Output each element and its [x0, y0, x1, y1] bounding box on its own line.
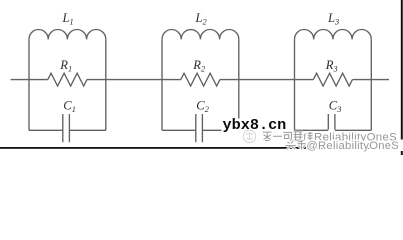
- watermark ybx8.cn white background box: [222, 119, 292, 134]
- wire: bottom left of loop 3: [295, 129, 329, 131]
- wire: right stub of main horizontal line: [352, 79, 389, 81]
- wire: bottom left of loop 2: [162, 129, 196, 131]
- inductor L1: [29, 30, 106, 40]
- capacitor C2: [196, 114, 203, 142]
- svg-text:ybx8.cn: ybx8.cn: [223, 116, 287, 134]
- watermark halo patch over right border: [397, 140, 403, 152]
- resistor R2: [181, 73, 220, 86]
- resistor R1: [48, 73, 87, 86]
- wire: between R2 and R3: [220, 79, 313, 81]
- svg-text:R2: R2: [192, 58, 205, 73]
- svg-text:R3: R3: [325, 58, 338, 73]
- wire: bottom left of loop 1: [29, 129, 63, 131]
- svg-text:C2: C2: [196, 99, 209, 114]
- svg-text:@ReliabilityOneS: @ReliabilityOneS: [306, 140, 399, 152]
- wire: bottom right of loop 3: [335, 129, 371, 131]
- inductor L2: [162, 29, 239, 39]
- capacitor C1: [63, 114, 70, 142]
- watermark logo circle: [243, 130, 255, 142]
- bottom black border line: [0, 147, 403, 149]
- svg-text:C3: C3: [329, 99, 342, 114]
- wire: bottom right of loop 1: [69, 129, 105, 131]
- wire: right vertical of loop 3: [370, 39, 372, 130]
- watermark line 1 CJK: 李一可靠性: [263, 132, 313, 141]
- wire: left vertical of loop 2: [161, 39, 163, 130]
- resistor R3: [313, 73, 352, 86]
- svg-text:L2: L2: [195, 11, 207, 26]
- svg-text:C1: C1: [63, 99, 76, 114]
- wire: bottom right of loop 2: [202, 129, 238, 131]
- right black border line: [401, 0, 403, 155]
- capacitor C3: [328, 114, 335, 130]
- svg-text:L3: L3: [327, 11, 339, 26]
- wire: left stub of main horizontal line: [11, 79, 48, 81]
- wire: between R1 and R2: [87, 79, 181, 81]
- svg-text:L1: L1: [62, 11, 74, 26]
- svg-text:R1: R1: [59, 58, 72, 73]
- watermark line 2 CJK: 头条: [285, 140, 306, 149]
- wire: left vertical of loop 3: [294, 39, 296, 130]
- wire: left vertical of loop 1: [28, 39, 30, 130]
- wire: right vertical of loop 1: [105, 39, 107, 130]
- wire: right vertical of loop 2: [238, 39, 240, 130]
- inductor L3: [295, 29, 372, 39]
